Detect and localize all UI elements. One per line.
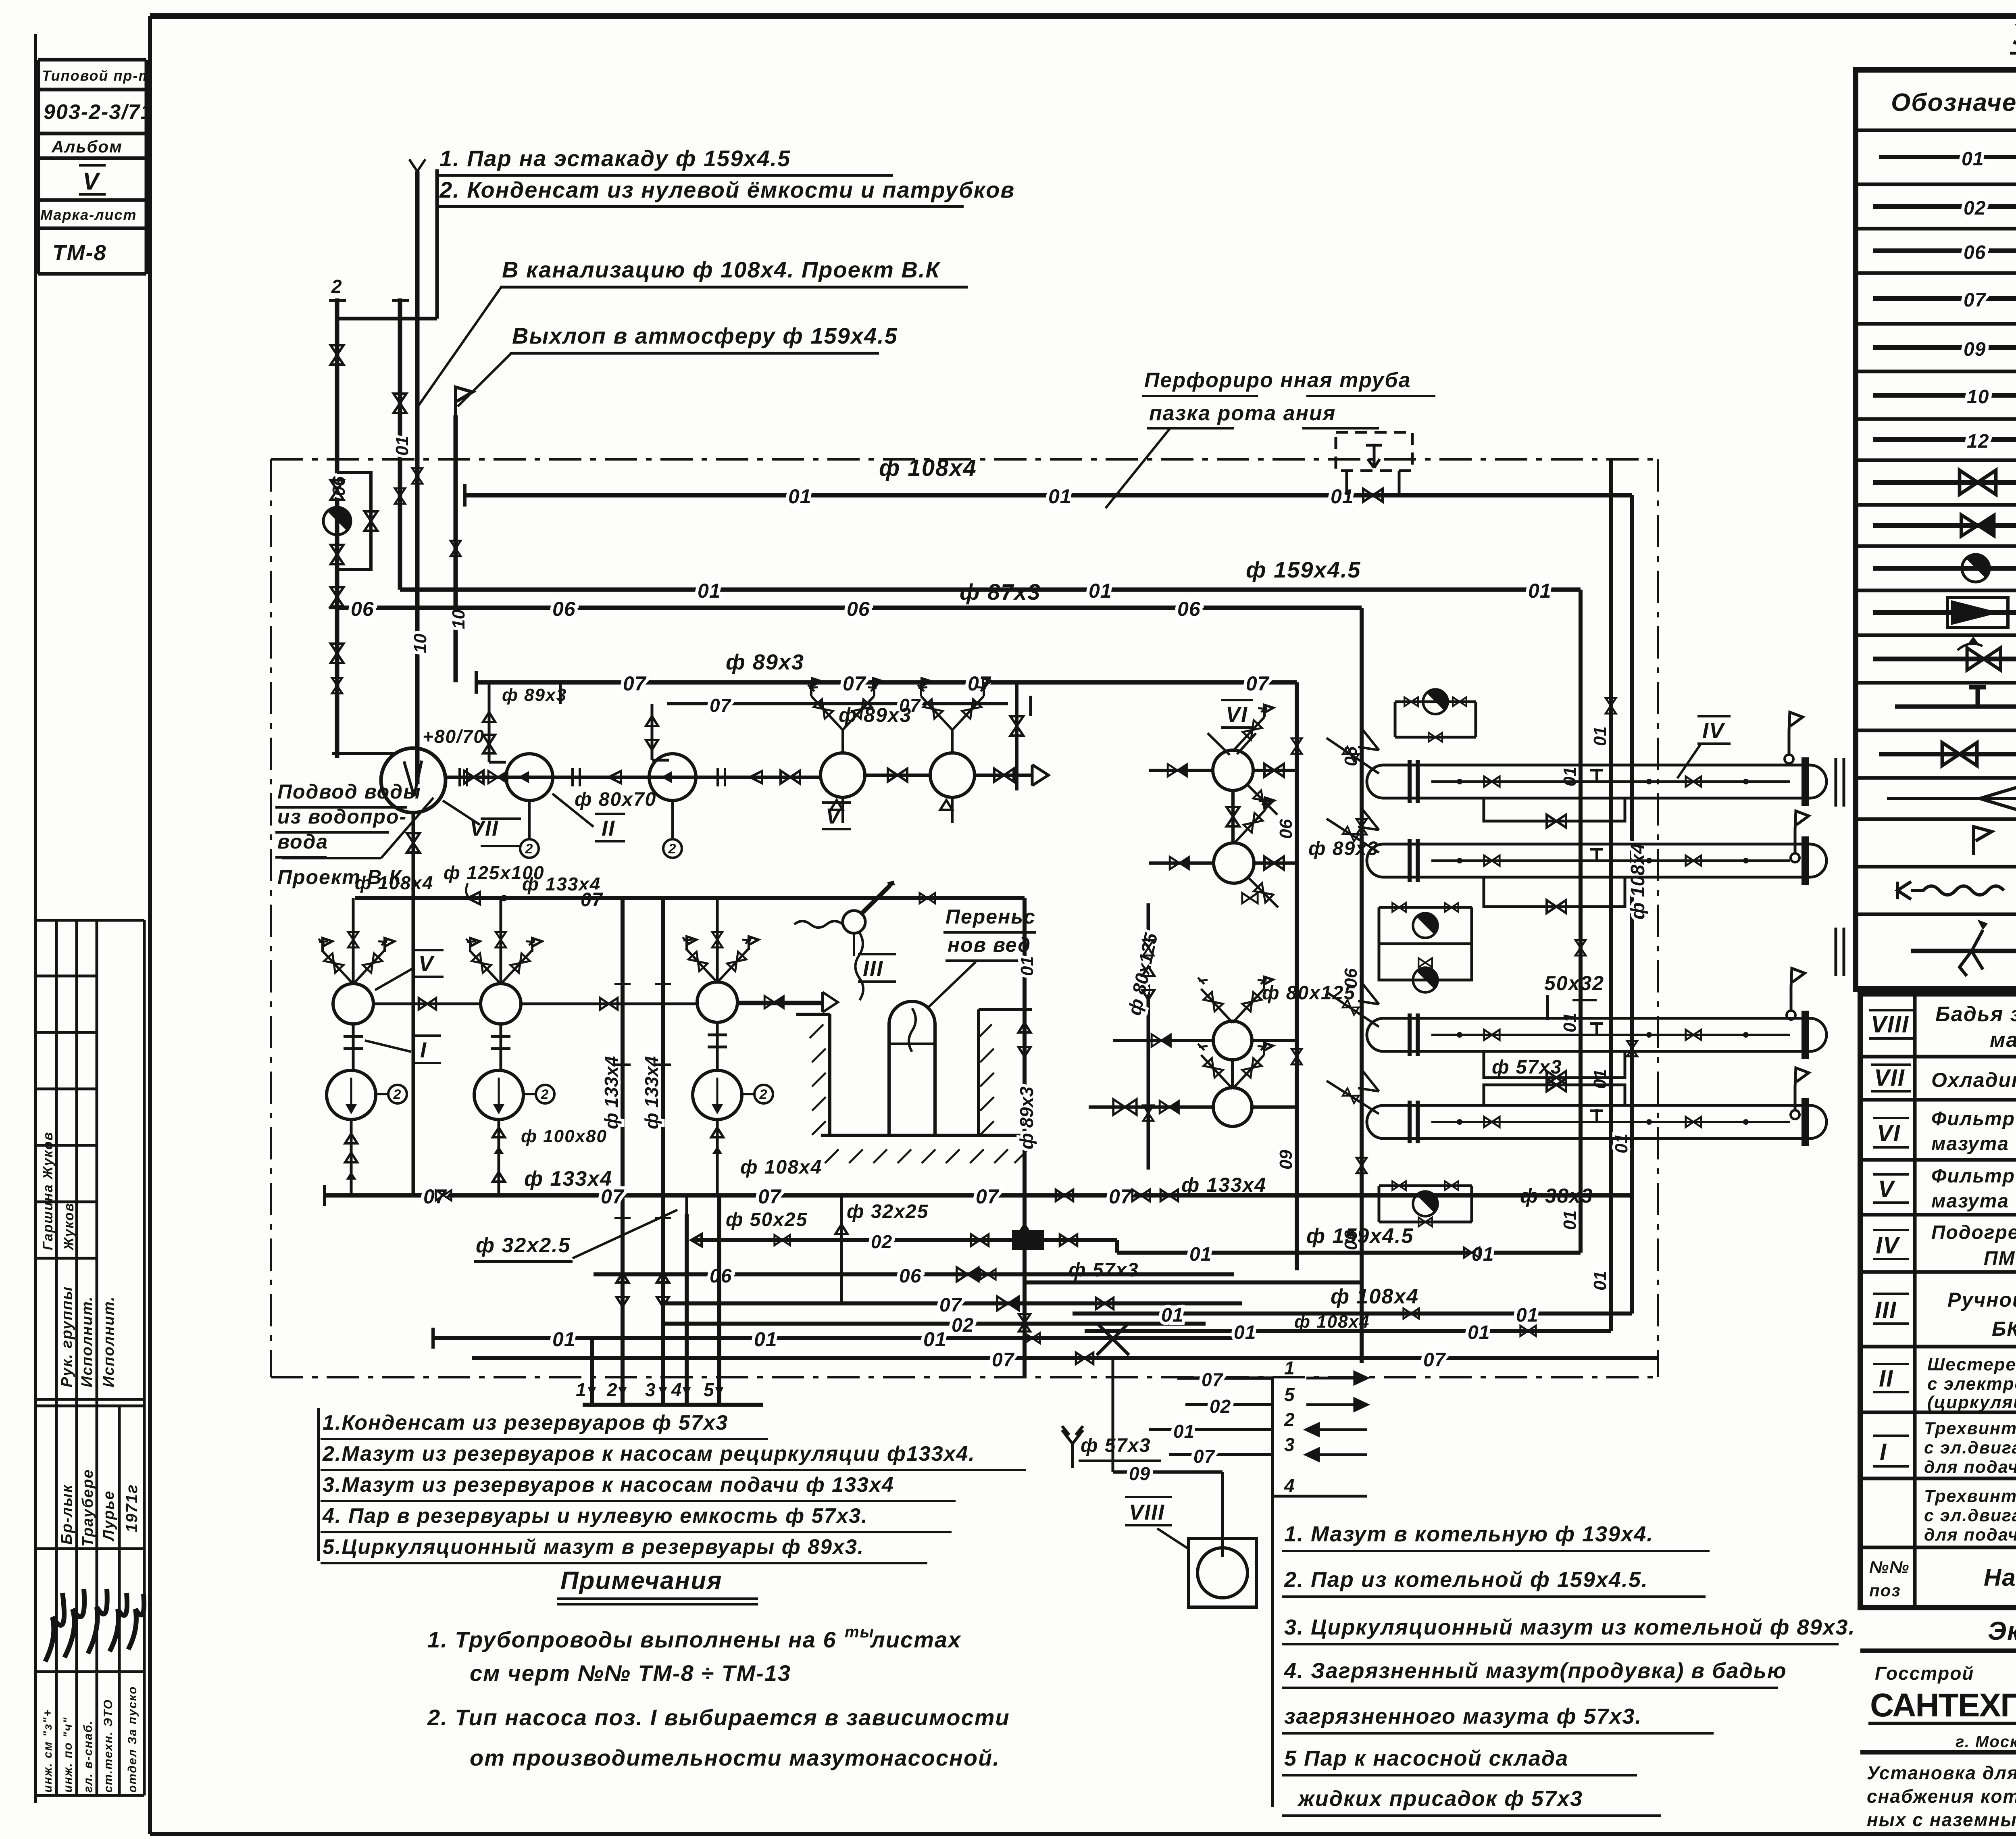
svg-text:2: 2 xyxy=(331,276,343,297)
svg-text:01: 01 xyxy=(1516,1305,1538,1326)
svg-text:ф 87х3: ф 87х3 xyxy=(960,579,1041,605)
pipe 07 header xyxy=(476,680,1297,685)
svg-text:ф 159х4.5: ф 159х4.5 xyxy=(1306,1224,1414,1248)
svg-text:В канализацию ф 108х4. Прое: В канализацию ф 108х4. Проект В.К xyxy=(502,257,941,282)
svg-text:из водопро-: из водопро- xyxy=(277,805,407,828)
svg-text:мазута ФМ-25-30-40: мазута ФМ-25-30-40 xyxy=(1931,1133,2016,1155)
stub 01-2 xyxy=(1149,1428,1272,1431)
svg-text:V: V xyxy=(83,168,101,195)
svg-text:1. Пар на эстакаду ф 159х: 1. Пар на эстакаду ф 159х4.5 xyxy=(439,146,791,171)
svg-text:для подачи мазута в кот.: для подачи мазута в кот. xyxy=(1924,1457,2016,1477)
pipe 01 f108x4 top xyxy=(465,493,1632,498)
riser C 06 xyxy=(1360,608,1364,1363)
svg-text:VI: VI xyxy=(1226,703,1248,727)
svg-text:09: 09 xyxy=(1129,1463,1150,1484)
svg-text:903-2-3/71: 903-2-3/71 xyxy=(44,100,153,124)
svg-text:01: 01 xyxy=(1590,726,1610,746)
suction hoses wavy xyxy=(794,921,843,928)
title block grid xyxy=(1860,1651,2016,1834)
svg-text:07: 07 xyxy=(710,695,732,716)
svg-text:ф 159х4.5: ф 159х4.5 xyxy=(1246,557,1361,582)
svg-text:ф 133х4: ф 133х4 xyxy=(641,1056,662,1129)
svg-text:снабжения котель-: снабжения котель- xyxy=(1867,1786,2016,1807)
svg-text:Экспликация оборудования: Экспликация оборудования xyxy=(1988,1616,2016,1645)
svg-text:Шестеренный насос РЗ-30: Шестеренный насос РЗ-30 xyxy=(1927,1355,2016,1374)
valve on riser C xyxy=(1356,819,1367,834)
legend r4 symbol line 07 xyxy=(1873,296,2016,301)
filter V-2 xyxy=(930,753,975,797)
svg-text:инж. см "з"+: инж. см "з"+ xyxy=(41,1709,54,1793)
svg-text:мазута: мазута xyxy=(1990,1028,2016,1052)
heater nozzle bars xyxy=(1836,758,1844,976)
dash-dot boundary bottom xyxy=(271,1376,1658,1378)
svg-text:инж. по "ч": инж. по "ч" xyxy=(61,1717,75,1793)
heater bypass 2 xyxy=(1484,877,1625,907)
riser v1 06 xyxy=(335,298,339,758)
svg-text:ст.техн. ЭТО: ст.техн. ЭТО xyxy=(102,1699,115,1793)
VI connections xyxy=(1149,770,1297,863)
svg-text:V: V xyxy=(826,804,842,828)
svg-text:07: 07 xyxy=(1246,672,1270,695)
svg-text:01: 01 xyxy=(1528,580,1552,602)
svg-text:Перфориро нная труба: Перфориро нная труба xyxy=(1144,369,1411,392)
svg-text:пазка рота ания: пазка рота ания xyxy=(1149,402,1336,425)
svg-text:3: 3 xyxy=(1284,1434,1295,1455)
svg-text:10: 10 xyxy=(449,609,469,629)
riser f80x125 xyxy=(1147,903,1150,1170)
svg-text:Установка для мазуто-: Установка для мазуто- xyxy=(1867,1762,2016,1783)
svg-text:07: 07 xyxy=(992,1349,1015,1371)
svg-text:I: I xyxy=(420,1038,427,1062)
right 01 f108x4 line xyxy=(1073,1311,1632,1316)
svg-text:ф 89х3: ф 89х3 xyxy=(502,685,567,705)
svg-text:01: 01 xyxy=(1189,1244,1212,1265)
svg-text:III: III xyxy=(1875,1297,1897,1323)
svg-text:III: III xyxy=(863,957,883,981)
svg-text:01: 01 xyxy=(1017,956,1037,976)
svg-text:с эл.двигателем АО2-61-4: с эл.двигателем АО2-61-4 xyxy=(1924,1506,2016,1525)
svg-text:01: 01 xyxy=(1560,1013,1580,1032)
thick drop 2 xyxy=(621,899,625,1405)
trap loop A xyxy=(1395,702,1476,737)
heater IV-4 xyxy=(1367,1098,1826,1146)
svg-text:Переньс: Переньс xyxy=(946,905,1036,928)
legend r1 symbol line 01 xyxy=(1879,157,2016,158)
pipe 07 low xyxy=(661,1301,1242,1305)
svg-text:2. Пар из котельной ф 159: 2. Пар из котельной ф 159х4.5. xyxy=(1284,1568,1648,1592)
legend row lines xyxy=(1856,130,2016,914)
perenos leader xyxy=(927,962,976,1008)
legend r11 symbol reducing valve xyxy=(1873,610,2016,615)
svg-text:07: 07 xyxy=(1193,1446,1216,1467)
svg-text:01: 01 xyxy=(552,1328,576,1351)
svg-text:06: 06 xyxy=(1276,819,1296,839)
legend r14 symbol drain device xyxy=(1879,752,2016,757)
svg-text:5: 5 xyxy=(704,1379,715,1400)
heater IV-2 xyxy=(1367,836,1826,885)
pump II-2 xyxy=(649,754,696,801)
svg-text:Выхлоп в атмосферу ф 159х4.5: Выхлоп в атмосферу ф 159х4.5 xyxy=(512,323,898,348)
svg-text:от производительности мазу: от производительности мазутонасосной. xyxy=(470,1745,1000,1770)
hand pump circle xyxy=(843,911,865,933)
svg-text:г. Москва: г. Москва xyxy=(1956,1733,2016,1751)
svg-text:2. Тип насоса поз. I выбира: 2. Тип насоса поз. I выбирается в зависи… xyxy=(427,1705,1010,1730)
svg-text:Обозначения: Обозначения xyxy=(1891,89,2016,117)
equipment table outer xyxy=(1860,994,2016,1608)
group B filter xyxy=(481,984,521,1024)
wire 09 connector xyxy=(1112,1358,1114,1472)
svg-text:с электродвиг. АО251-6: с электродвиг. АО251-6 xyxy=(1927,1374,2016,1394)
svg-text:06: 06 xyxy=(351,598,374,620)
wire drops from 07 header xyxy=(560,682,984,704)
wire riser x2087 xyxy=(840,1195,843,1303)
group A filter xyxy=(333,984,373,1024)
svg-text:ных с наземными: ных с наземными xyxy=(1867,1809,2016,1830)
svg-text:IV: IV xyxy=(1702,719,1725,743)
legend r13 symbol pipe joint xyxy=(1895,686,2016,707)
svg-text:Трехвинтовой насос 3В-16/25: Трехвинтовой насос 3В-16/25 xyxy=(1924,1419,2016,1438)
svg-text:12: 12 xyxy=(1967,431,1989,452)
perforated pipe dashed box xyxy=(1336,432,1412,471)
svg-text:загрязненного мазута ф 5: загрязненного мазута ф 57х3. xyxy=(1284,1704,1642,1728)
svg-text:01: 01 xyxy=(1331,485,1354,508)
svg-text:Исполнит.: Исполнит. xyxy=(100,1296,117,1387)
svg-text:ф 108х4: ф 108х4 xyxy=(1294,1312,1370,1332)
svg-text:№№: №№ xyxy=(1869,1558,1910,1576)
svg-text:Бр-лык: Бр-лык xyxy=(58,1484,75,1545)
legend r6 symbol line 10 xyxy=(1873,393,2016,398)
svg-text:ф 108х4: ф 108х4 xyxy=(879,455,977,481)
riser v3 xyxy=(415,171,420,784)
collector vertical xyxy=(1271,1378,1274,1807)
svg-text:01: 01 xyxy=(754,1328,777,1351)
legend r12 symbol control valve xyxy=(1873,657,2016,661)
svg-text:Проект В.К.: Проект В.К. xyxy=(277,866,408,888)
svg-text:ф 133х4: ф 133х4 xyxy=(1181,1174,1266,1196)
gauge II-1 xyxy=(528,801,531,838)
svg-text:ф 108х4: ф 108х4 xyxy=(1331,1285,1419,1308)
stamp box col xyxy=(38,60,146,274)
note 4 leader xyxy=(458,353,511,407)
exhaust flags on filters V xyxy=(812,678,992,690)
svg-text:вода: вода xyxy=(277,830,328,853)
dash-dot boundary left xyxy=(270,459,272,1377)
svg-text:01: 01 xyxy=(1173,1421,1195,1442)
pipe 02 xyxy=(692,1240,1117,1253)
svg-text:09: 09 xyxy=(1276,1150,1296,1170)
valve pair on riser f89x3 xyxy=(1018,1023,1031,1057)
svg-text:1. Трубопроводы выполнены на: 1. Трубопроводы выполнены на 6 xyxy=(427,1627,837,1652)
svg-text:3.Мазут из резервуаров к на: 3.Мазут из резервуаров к насосам подачи … xyxy=(323,1473,894,1497)
svg-text:ф 89х3: ф 89х3 xyxy=(1016,1086,1037,1149)
trap bypass loop xyxy=(337,473,371,569)
heater inlet valves xyxy=(1358,730,1379,1091)
filter connections xyxy=(865,774,930,777)
svg-text:Ручной насос: Ручной насос xyxy=(1947,1289,2016,1311)
pipe 07 second xyxy=(667,702,1008,705)
svg-text:4. Загрязненный мазут(продувк: 4. Загрязненный мазут(продувка) в бадью xyxy=(1284,1659,1787,1683)
upper 07 line xyxy=(355,896,1025,900)
drain device Y xyxy=(1062,1426,1083,1468)
svg-text:07: 07 xyxy=(1423,1349,1446,1371)
wire riser 4 top xyxy=(685,1195,688,1214)
equipment col lines xyxy=(1915,994,2016,1608)
exhaust flags on filter arms xyxy=(323,936,758,952)
filter V-1 xyxy=(821,753,865,797)
svg-text:06: 06 xyxy=(899,1266,921,1287)
valve on pipe 07 lowest xyxy=(1076,1353,1093,1364)
svg-text:02: 02 xyxy=(871,1231,892,1252)
flange ticks on drops xyxy=(614,984,671,1218)
svg-text:1. Мазут в котельную ф 13: 1. Мазут в котельную ф 139х4. xyxy=(1284,1522,1654,1546)
svg-text:ф 32х2.5: ф 32х2.5 xyxy=(476,1234,571,1257)
svg-text:IV: IV xyxy=(1876,1232,1900,1259)
svg-text:Исполнит.: Исполнит. xyxy=(79,1296,96,1387)
svg-text:ф 50х25: ф 50х25 xyxy=(726,1209,808,1230)
svg-text:01: 01 xyxy=(1234,1322,1256,1343)
rotated signatures scribbles xyxy=(45,1589,144,1662)
svg-text:ф 108х4: ф 108х4 xyxy=(1627,843,1649,919)
heater bypass 4 xyxy=(1484,1085,1625,1105)
standalone valve line xyxy=(1015,682,1018,790)
thick drop 3 xyxy=(661,899,665,1405)
svg-text:Подвод воды: Подвод воды xyxy=(277,780,421,803)
svg-text:1: 1 xyxy=(1284,1357,1295,1378)
svg-text:Подогреватель мазута: Подогреватель мазута xyxy=(1931,1222,2016,1243)
svg-text:ф 133х4: ф 133х4 xyxy=(601,1056,622,1129)
right 01 second line xyxy=(1085,1329,1611,1333)
legend r8 symbol gate valve xyxy=(1873,480,2016,485)
svg-text:07: 07 xyxy=(1109,1185,1133,1208)
svg-text:VIII: VIII xyxy=(1871,1011,1909,1038)
svg-text:06: 06 xyxy=(847,598,870,620)
stub 07-3 xyxy=(1169,1453,1272,1456)
svg-text:Гаршина Жуков: Гаршина Жуков xyxy=(40,1131,56,1250)
svg-text:01: 01 xyxy=(1590,1271,1610,1291)
svg-text:Марка-лист: Марка-лист xyxy=(40,206,137,223)
equipment row lines xyxy=(1860,1057,2016,1608)
svg-text:10: 10 xyxy=(1967,386,1989,408)
svg-text:БКФ-4: БКФ-4 xyxy=(1992,1318,2016,1340)
svg-text:02: 02 xyxy=(1964,198,1986,219)
svg-text:ф 89х3: ф 89х3 xyxy=(726,650,804,674)
trap loop B1 xyxy=(1379,907,1472,944)
09 line to VIII xyxy=(1113,1472,1223,1557)
group B drop xyxy=(498,1120,500,1195)
pipe 02 low xyxy=(661,1322,1206,1326)
svg-text:V: V xyxy=(1878,1176,1895,1202)
svg-text:09: 09 xyxy=(1964,339,1986,360)
svg-text:01: 01 xyxy=(1560,767,1580,786)
exhaust mark on riser v3 xyxy=(409,159,425,171)
svg-text:5: 5 xyxy=(1284,1384,1295,1405)
right f57x3 line xyxy=(1025,1280,1362,1284)
svg-text:Фильтр грубой очистки: Фильтр грубой очистки xyxy=(1931,1166,2016,1187)
svg-text:01: 01 xyxy=(1161,1305,1183,1326)
svg-text:07: 07 xyxy=(1964,290,1987,311)
dash-dot boundary top xyxy=(271,458,1658,461)
svg-text:5 Пар к насосной склада: 5 Пар к насосной склада xyxy=(1284,1746,1568,1770)
heater bypass 1 xyxy=(1484,798,1625,821)
svg-text:02: 02 xyxy=(952,1315,974,1336)
riser D 07/06 xyxy=(1295,682,1299,1270)
svg-text:01: 01 xyxy=(1468,1322,1490,1343)
svg-text:Фильтр тонкой очистки: Фильтр тонкой очистки xyxy=(1931,1108,2016,1130)
svg-text:01: 01 xyxy=(1612,1134,1631,1153)
svg-text:Жуков: Жуков xyxy=(61,1202,77,1251)
svg-text:Траубере: Траубере xyxy=(79,1469,96,1547)
svg-text:2. Конденсат из нулевой ёмкос: 2. Конденсат из нулевой ёмкости и патруб… xyxy=(439,177,1015,202)
signature table grid xyxy=(35,920,144,1795)
svg-text:2.Мазут из резервуаров к на: 2.Мазут из резервуаров к насосам рецирку… xyxy=(322,1442,975,1466)
svg-text:Альбом: Альбом xyxy=(51,137,123,156)
svg-text:нов вед: нов вед xyxy=(948,934,1031,956)
svg-text:1: 1 xyxy=(576,1379,587,1400)
svg-text:ф 57х3: ф 57х3 xyxy=(1492,1057,1562,1078)
svg-text:ф 80х70: ф 80х70 xyxy=(575,789,656,810)
svg-text:ф 100х80: ф 100х80 xyxy=(521,1126,607,1146)
filter V bottom valves xyxy=(843,797,952,823)
svg-text:01: 01 xyxy=(1962,148,1984,170)
svg-text:мазута ФМ-25-30-5: мазута ФМ-25-30-5 xyxy=(1931,1191,2016,1212)
svg-text:Трехвинтовой насос 3В-16/25: Трехвинтовой насос 3В-16/25 xyxy=(1924,1487,2016,1506)
valve on pipe 07 top xyxy=(1242,893,1258,903)
valve on pipe 07 suction xyxy=(1132,1190,1150,1201)
left stub xyxy=(332,752,397,755)
svg-text:Рук. группы: Рук. группы xyxy=(58,1286,75,1387)
svg-text:01: 01 xyxy=(392,436,412,456)
filter VI-1 xyxy=(1213,750,1253,790)
legend r17 symbol flexible hose xyxy=(1897,882,2004,899)
svg-text:листах: листах xyxy=(870,1627,962,1652)
filter V arms left xyxy=(1198,978,1233,1023)
pit bucket xyxy=(889,1001,935,1135)
perforated pipe leader xyxy=(1106,428,1170,508)
cooler stem and valve xyxy=(412,813,415,1195)
svg-text:V: V xyxy=(419,952,435,976)
border frame bottom xyxy=(150,1832,2016,1836)
svg-text:50х32: 50х32 xyxy=(1544,972,1604,995)
border frame left xyxy=(148,16,152,1834)
valve on riser 10 xyxy=(412,468,423,484)
svg-text:02: 02 xyxy=(1210,1396,1231,1417)
pipe 07 suction xyxy=(325,1193,1632,1198)
valve on riser 01 xyxy=(395,488,405,504)
wire hand pump drop xyxy=(853,933,855,956)
svg-text:1.Конденсат из резервуаров: 1.Конденсат из резервуаров ф 57х3 xyxy=(323,1411,728,1435)
valve on riser D xyxy=(1291,738,1302,754)
legend r15 symbol transition xyxy=(1887,786,2016,811)
exhaust flags on filters VI xyxy=(1264,705,1274,1055)
svg-text:I: I xyxy=(1880,1439,1887,1465)
svg-text:VIII: VIII xyxy=(1129,1500,1165,1524)
legend r9 symbol check valve xyxy=(1873,523,2016,528)
pipe 07 lowest xyxy=(472,1356,1222,1360)
group B pump xyxy=(500,1024,502,1070)
svg-text:07: 07 xyxy=(758,1185,782,1208)
riser note collector xyxy=(337,169,437,319)
svg-text:Условные обозначения: Условные обозначения xyxy=(2012,19,2016,51)
svg-text:ф 32х25: ф 32х25 xyxy=(847,1201,929,1222)
svg-text:07: 07 xyxy=(623,672,647,695)
border frame top xyxy=(150,13,2016,19)
valve on riser 06 xyxy=(332,678,342,693)
svg-text:07: 07 xyxy=(843,672,866,695)
lower filters V pair xyxy=(1213,1021,1252,1060)
svg-text:см черт №№ ТМ-8 ÷ ТМ-13: см черт №№ ТМ-8 ÷ ТМ-13 xyxy=(470,1660,791,1686)
group C drop xyxy=(716,1120,719,1195)
short stub into pit pump line xyxy=(737,1003,823,1005)
group A pump xyxy=(352,1024,355,1070)
riser R3 xyxy=(1630,495,1634,1314)
dash-dot boundary right xyxy=(1657,459,1659,1377)
flange ticks on pump line xyxy=(460,768,725,786)
pipe 06 low xyxy=(594,1272,1234,1276)
valve on riser v4 xyxy=(450,541,461,556)
svg-text:гл. в-снаб.: гл. в-снаб. xyxy=(81,1720,95,1793)
svg-text:отдел За пуско: отдел За пуско xyxy=(126,1686,139,1793)
valve on line 01 f159 xyxy=(1464,1247,1479,1258)
legend r5 symbol line 09 xyxy=(1873,345,2016,350)
svg-text:поз: поз xyxy=(1869,1581,1901,1600)
svg-text:2: 2 xyxy=(606,1379,618,1400)
group C pump xyxy=(716,1022,719,1070)
svg-text:ф 57х3: ф 57х3 xyxy=(1081,1435,1151,1456)
svg-text:07: 07 xyxy=(976,1185,1000,1208)
group C filter xyxy=(697,982,737,1022)
legend r2 symbol line 02 xyxy=(1873,204,2016,209)
riser v2 01 xyxy=(398,298,402,590)
stub 07-1 xyxy=(1177,1376,1272,1380)
trap K1 xyxy=(323,507,351,535)
svg-text:ты: ты xyxy=(845,1623,875,1641)
trap loop B2 xyxy=(1379,944,1472,980)
podvod leader xyxy=(282,798,433,858)
svg-text:для подачи мазута в котельную: для подачи мазута в котельную xyxy=(1924,1525,2016,1545)
heater bypass 3 xyxy=(1484,1051,1625,1078)
valves between pumps xyxy=(464,771,483,784)
heater IV-1 xyxy=(1367,757,1826,806)
stub 02-5 xyxy=(1185,1403,1272,1406)
svg-text:жидких присадок ф 57х3: жидких присадок ф 57х3 xyxy=(1297,1787,1583,1811)
gauge II-2 xyxy=(671,801,674,838)
valve on pipe 07 suction 2 xyxy=(1056,1190,1073,1201)
svg-text:01: 01 xyxy=(923,1328,947,1351)
svg-text:4: 4 xyxy=(671,1379,683,1400)
crossing X junction xyxy=(1097,1323,1129,1355)
riser R2 xyxy=(1609,459,1613,1331)
svg-text:VII: VII xyxy=(1874,1065,1905,1091)
right 07 line lowest xyxy=(1222,1356,1658,1360)
svg-text:4. Пар в резервуары и нулев: 4. Пар в резервуары и нулевую емкость ф … xyxy=(322,1504,868,1528)
svg-text:+80/70: +80/70 xyxy=(423,726,485,747)
pipe 01 f159x45 xyxy=(400,588,1581,592)
svg-text:II: II xyxy=(602,816,615,840)
svg-text:01: 01 xyxy=(698,580,721,602)
filters interconnect xyxy=(373,1003,697,1005)
legend r10 symbol trap xyxy=(1873,566,2016,571)
svg-text:VI: VI xyxy=(1877,1120,1901,1147)
svg-text:ф 80х125: ф 80х125 xyxy=(1262,982,1356,1004)
svg-text:06: 06 xyxy=(1964,242,1986,263)
svg-text:ф 133х4: ф 133х4 xyxy=(524,1167,612,1191)
pipe through pumps xyxy=(446,776,821,779)
sheet edge line left xyxy=(34,34,37,1803)
svg-text:01: 01 xyxy=(1560,1210,1580,1230)
svg-text:ПМ-40-15: ПМ-40-15 xyxy=(1984,1248,2016,1269)
svg-text:5.Циркуляционный мазут в ре: 5.Циркуляционный мазут в резервуары ф 89… xyxy=(323,1535,864,1559)
legend table outer xyxy=(1856,70,2016,989)
